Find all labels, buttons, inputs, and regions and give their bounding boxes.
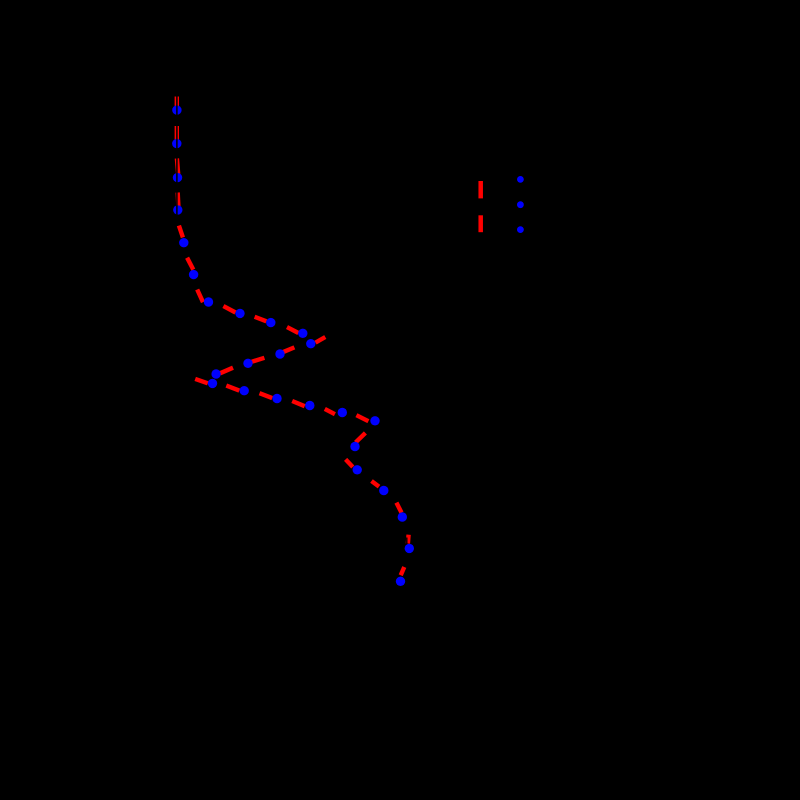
dash D8 <box>223 306 235 312</box>
dash D17 <box>260 393 273 398</box>
dash D4 <box>175 193 180 207</box>
data point P22 <box>353 465 362 474</box>
data point P11 <box>306 339 315 348</box>
legend dot 3 <box>517 226 524 233</box>
data point P8 <box>235 309 244 318</box>
black solid overlay line carving notches through top dashes and dots <box>176 92 178 216</box>
dash D12 <box>282 347 295 352</box>
legend dot 1 <box>517 176 524 183</box>
data point P13 <box>243 359 252 368</box>
dash D21 <box>356 433 366 443</box>
legend dash A <box>478 181 483 198</box>
data point P12 <box>275 349 284 358</box>
data point P18 <box>305 401 314 410</box>
data point P4 <box>173 205 182 214</box>
data point P15 <box>208 379 217 388</box>
dash D5 <box>179 226 183 238</box>
legend: red dashed line sample <box>478 181 483 232</box>
data point P19 <box>338 408 347 417</box>
data point P14 <box>211 369 220 378</box>
legend dash B <box>478 215 483 232</box>
data point P2 <box>172 139 181 148</box>
dash D13 <box>252 358 265 362</box>
data point P7 <box>204 297 213 306</box>
data point P16 <box>240 386 249 395</box>
dash D2 <box>175 126 179 140</box>
dash D26 <box>401 567 405 575</box>
data point P24 <box>398 512 407 521</box>
dash D14 <box>220 368 233 374</box>
dash D7 <box>197 290 203 303</box>
dash D22 <box>346 459 353 467</box>
dash D9 <box>255 317 267 322</box>
dash D18 <box>292 401 305 406</box>
data point P5 <box>179 238 188 247</box>
data point P1 <box>172 105 181 114</box>
data point P3 <box>173 173 182 182</box>
data point P10 <box>298 329 307 338</box>
data point P21 <box>350 442 359 451</box>
data point P25 <box>405 544 414 553</box>
data point P23 <box>379 486 388 495</box>
dash D25 <box>406 535 411 544</box>
dash D1 <box>175 97 179 107</box>
data point P6 <box>189 270 198 279</box>
red dashed profile line segments <box>177 97 409 576</box>
dash D15 <box>195 379 208 383</box>
dash D16 <box>226 386 239 391</box>
dash D19 <box>325 409 335 414</box>
data point P26 <box>396 577 405 586</box>
dash D10 <box>287 327 298 333</box>
data point P9 <box>266 318 275 327</box>
dash D3 <box>177 158 178 174</box>
dash D20 <box>356 415 368 421</box>
legend: blue dotted marker sample <box>517 176 524 233</box>
dash D24 <box>396 503 401 513</box>
blue data point markers <box>172 105 414 586</box>
dash D11 <box>316 337 326 343</box>
data point P20 <box>370 416 379 425</box>
dash D6 <box>187 258 193 270</box>
data point P17 <box>272 394 281 403</box>
black notch over dash D25 <box>406 538 408 545</box>
dash D23 <box>372 481 380 487</box>
legend dot 2 <box>517 201 524 208</box>
